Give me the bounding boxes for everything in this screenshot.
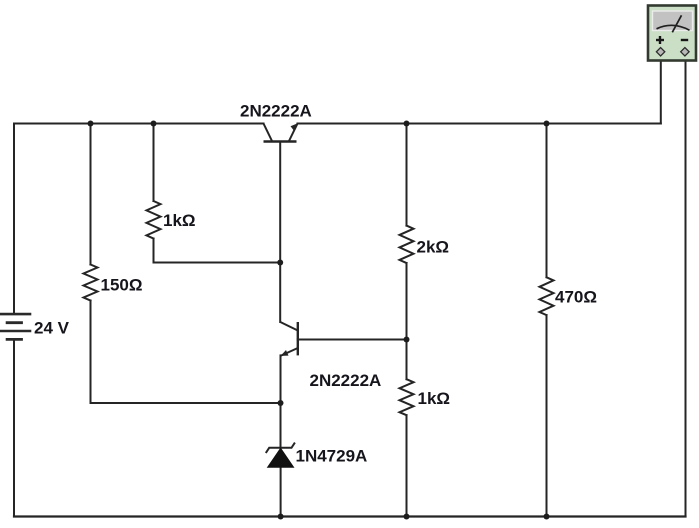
node bottom 1k right [404,514,410,520]
wire 1k left to base node [154,262,281,264]
node Q2 emitter junction [278,400,284,406]
wire 2k branch upper [406,124,408,226]
resistor R3 2kohm [400,226,414,263]
wire base node to 1k right [406,340,408,380]
svg-text:24 V: 24 V [34,319,70,338]
meter minus terminal [681,48,689,56]
transistor Q1 2N2222A top [264,123,298,141]
node Q1 base junction [277,260,283,266]
svg-text:150Ω: 150Ω [101,276,143,295]
meter plus terminal [656,48,664,56]
wire 470 branch lower [546,315,548,516]
node bottom zener [278,514,284,520]
resistor R1 150ohm [84,265,98,301]
svg-text:2kΩ: 2kΩ [417,238,450,257]
wire Q1 base to Q2 collector [279,142,281,323]
wire left rail upper [13,124,15,315]
node bottom 470 [544,514,550,520]
meter minus sign [681,39,688,41]
wire meter minus lead right rail [685,55,687,517]
meter plus sign [656,39,664,41]
meter needle [672,15,681,32]
wire 150 ohm branch lower [90,301,92,404]
resistor R5 470ohm [540,277,554,315]
wire 1k left branch lower [153,239,155,263]
wire meter plus lead [660,55,662,124]
svg-text:470Ω: 470Ω [555,288,597,307]
wire 150 ohm to emitter node [91,402,281,404]
wire top rail left segment [14,123,264,125]
node top 470 branch [544,121,550,127]
wire bottom rail [14,515,686,517]
wire 2k to base-node segment [406,263,408,340]
node Q2 base junction [404,337,410,343]
node top 2k branch [404,121,410,127]
multimeter U1 [648,6,696,61]
zener diode D1 1N4729A [266,443,295,467]
svg-text:2N2222A: 2N2222A [240,102,312,121]
wire zener bottom lead [280,467,282,517]
wire 1k left branch upper [153,124,155,202]
transistor Q2 2N2222A middle [280,322,298,356]
resistor R4 1kohm right [400,379,414,415]
meter needle arc [657,25,690,30]
svg-text:1kΩ: 1kΩ [163,211,196,230]
node top-left 150 branch [88,121,94,127]
node top 1k branch [151,121,157,127]
wire top rail right segment [298,123,661,125]
svg-text:2N2222A: 2N2222A [310,371,382,390]
wire 1k right lower [406,415,408,516]
battery V1 24V [0,314,31,339]
svg-text:1kΩ: 1kΩ [418,389,451,408]
svg-text:1N4729A: 1N4729A [296,447,368,466]
wire Q2 emitter lead [280,355,282,447]
wire Q2 base wire [298,339,407,341]
wire left rail lower [13,339,15,516]
wire 150 ohm branch upper [90,124,92,265]
wire 470 branch upper [546,124,548,278]
resistor R2 1kohm left [147,201,161,239]
